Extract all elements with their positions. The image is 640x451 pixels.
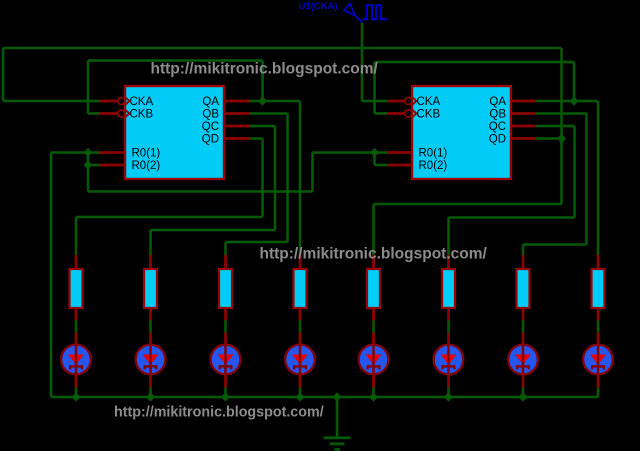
wire LED6 to ground rail / junction: [444, 388, 453, 402]
svg-text:R0(1): R0(1): [132, 148, 161, 160]
wire QC(U1) segment: [536, 125, 575, 128]
wire LED3 to ground rail / junction: [221, 388, 230, 402]
wire right vertical from top rail down: [560, 48, 563, 204]
svg-text:QD: QD: [489, 134, 506, 146]
pin lead U2 QB: [224, 112, 250, 115]
svg-text:R0(2): R0(2): [419, 160, 448, 172]
wire LED8 to ground rail / junction: [597, 388, 600, 398]
wire CKB(U2) drop: [87, 61, 90, 114]
wire LED7 to ground rail / junction: [518, 388, 527, 402]
wire ground rail: [51, 396, 598, 399]
wire R8 to LED8: [597, 308, 600, 333]
wire column7 drop: [522, 245, 525, 256]
wire left ground vertical: [50, 153, 53, 398]
generator probe U1(CKA) clock: [299, 1, 388, 23]
resistor R7: [517, 255, 530, 308]
node watermark middle: [260, 245, 488, 262]
wire R0 U2 join: [88, 151, 100, 154]
pin lead U2 CKB: [100, 112, 118, 115]
svg-text:U1(CKA): U1(CKA): [299, 1, 338, 12]
wire LED1 to ground rail / junction: [71, 388, 80, 402]
svg-text:http://mikitronic.blogspot.com: http://mikitronic.blogspot.com/: [151, 60, 379, 77]
wire LED2 to ground rail / junction: [146, 388, 155, 402]
resistor R8: [592, 255, 605, 308]
svg-text:R0(2): R0(2): [132, 160, 161, 172]
svg-text:CKB: CKB: [130, 109, 154, 121]
wire R7 to LED7: [522, 308, 525, 333]
svg-text:QD: QD: [202, 134, 219, 146]
pin lead U1 QD: [511, 137, 536, 140]
wire into CKB(U2): [88, 112, 100, 115]
pin lead U1 R0(2): [387, 164, 412, 167]
pin lead U1 CKB: [387, 112, 405, 115]
wire QA(U1) up: [573, 62, 576, 101]
svg-text:QA: QA: [202, 96, 219, 108]
wire R0 U1 vertical: [373, 153, 376, 166]
wire QC(U2) segment: [250, 125, 276, 128]
pin lead U1 CKA: [387, 100, 405, 103]
wire QD(U2) to column1: [76, 216, 263, 219]
LED D7: [508, 333, 538, 388]
svg-text:CKB: CKB: [417, 109, 441, 121]
wire QB(U2) segment: [250, 112, 288, 115]
wire column2 drop: [149, 230, 152, 255]
wire LED5 to ground rail / junction: [369, 388, 378, 402]
pin lead U2 QD: [224, 137, 250, 140]
wire QC(U2) drop: [274, 126, 277, 230]
wire QC(U1) to column6: [449, 216, 575, 219]
wire CKB(U1) drop: [373, 62, 376, 114]
wire top rail QD(U1) to CKA(U2): [3, 47, 562, 50]
pin lead U2 R0(2): [100, 164, 125, 167]
wire QA(U2) column4 drop: [299, 101, 302, 255]
node watermark top: [151, 60, 379, 77]
junction R0(1) U2 node: [83, 148, 92, 157]
svg-text:QA: QA: [489, 96, 506, 108]
LED D1: [61, 333, 91, 388]
LED D5: [359, 333, 389, 388]
wire QA(U1) rail to CKB: [375, 61, 575, 64]
IC U1 7490 decade counter (right): [405, 86, 511, 179]
pin lead U1 R0(1): [387, 151, 412, 154]
wire QA(U2) rail to CKB: [88, 59, 263, 62]
wire QD(U2) segment: [250, 137, 263, 140]
wire LED4 to ground rail / junction: [295, 388, 304, 402]
wire into CKA(U2): [3, 100, 100, 103]
wire QC(U1) drop: [573, 126, 576, 218]
wire R0 tie to U1: [313, 151, 375, 154]
LED D2: [136, 333, 166, 388]
wire QA(U1) column8 drop: [597, 101, 600, 255]
wire QA(U2) up: [261, 61, 264, 102]
resistor R1: [70, 255, 83, 308]
resistor R5: [367, 255, 380, 308]
pin lead U1 QB: [511, 112, 536, 115]
wire R0 tie horizontal: [88, 190, 313, 193]
pin lead U2 QA: [224, 100, 250, 103]
LED D8: [583, 333, 613, 388]
junction R0(2) U2 node: [83, 160, 92, 169]
ground symbol: [324, 392, 351, 451]
svg-text:http://mikitronic.blogspot.com: http://mikitronic.blogspot.com/: [114, 404, 324, 420]
LED D3: [211, 333, 241, 388]
svg-text:http://mikitronic.blogspot.com: http://mikitronic.blogspot.com/: [260, 245, 488, 262]
svg-text:QC: QC: [489, 121, 506, 133]
wire left vertical to CKA(U2): [2, 48, 5, 101]
wire R0 U1 join2: [375, 164, 388, 167]
svg-text:QC: QC: [202, 121, 219, 133]
wire R5 to LED5: [372, 308, 375, 333]
wire R0 tie vertical: [311, 153, 314, 192]
resistor R4: [294, 255, 307, 308]
IC U2 7490 decade counter (left): [118, 86, 224, 179]
node watermark bottom: [114, 404, 324, 420]
wire QA(U2) segment: [250, 100, 301, 103]
wire R6 to LED6: [447, 308, 450, 333]
wire clock to CKA(U1): [361, 23, 364, 101]
wire R0 to ground left: [51, 151, 88, 154]
junction QA(U2) node: [258, 96, 267, 105]
svg-text:QB: QB: [489, 109, 506, 121]
wire QD(U1) to column5 horizontal: [374, 203, 562, 206]
wire R3 to LED3: [224, 308, 227, 333]
wire QD(U1) column5 drop: [372, 204, 375, 255]
pin lead U2 R0(1): [100, 151, 125, 154]
wire QD(U1) lead join: [536, 137, 562, 140]
wire QB(U2) drop: [286, 114, 289, 243]
pin lead U1 QC: [511, 125, 536, 128]
wire R0 U1 join: [375, 151, 388, 154]
junction R0(1) U1 node: [370, 148, 379, 157]
wire QB(U1) drop: [585, 114, 588, 245]
wire clock horizontal: [362, 100, 387, 103]
LED D4: [285, 333, 315, 388]
wire QA(U1) segment: [536, 100, 598, 103]
svg-text:CKA: CKA: [417, 96, 441, 108]
wire QB(U2) to column3: [226, 241, 288, 244]
wire column6 drop: [447, 218, 450, 256]
pin lead U1 QA: [511, 100, 536, 103]
wire column3 drop: [224, 242, 227, 255]
junction QA(U1) node: [569, 96, 578, 105]
svg-text:QB: QB: [202, 109, 219, 121]
wire R4 to LED4: [299, 308, 302, 333]
wire R0 U2 join2: [88, 164, 100, 167]
wire into CKB(U1): [375, 112, 388, 115]
wire QD(U2) drop: [261, 139, 264, 218]
pin lead U2 QC: [224, 125, 250, 128]
wire R1 to LED1: [75, 308, 78, 333]
wire QC(U2) to column2: [151, 229, 276, 232]
pin lead U2 CKA: [100, 100, 118, 103]
wire column1 drop: [75, 217, 78, 255]
resistor R6: [442, 255, 455, 308]
wire R0 U2 vertical: [87, 153, 90, 192]
LED D6: [434, 333, 464, 388]
wire QB(U1) segment: [536, 112, 587, 115]
svg-text:R0(1): R0(1): [419, 148, 448, 160]
wire R2 to LED2: [149, 308, 152, 333]
resistor R3: [219, 255, 232, 308]
resistor R2: [144, 255, 157, 308]
junction QD(U1) node: [557, 134, 566, 143]
wire QB(U1) to column7: [523, 243, 587, 246]
svg-text:CKA: CKA: [130, 96, 154, 108]
